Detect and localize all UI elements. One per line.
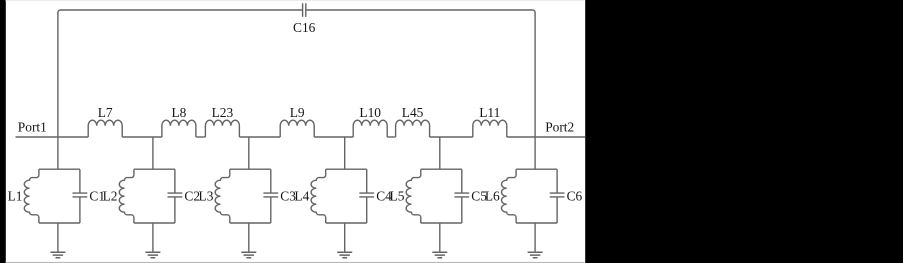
wire: tank 1 bottom rail — [39, 222, 80, 224]
wire: top loop left segment — [58, 10, 302, 13]
wire: tank 3 bottom rail — [230, 222, 271, 224]
capacitor C6 — [550, 169, 583, 223]
inductor L5 — [390, 169, 421, 223]
svg-text:L23: L23 — [212, 105, 234, 120]
ground — [432, 252, 447, 257]
capacitor C1 — [73, 169, 106, 223]
wire: tank 1 stub to ground — [57, 223, 59, 252]
wire: tank 2 stub to ground — [152, 223, 154, 252]
wire: tank 4 bottom rail — [326, 222, 367, 224]
svg-text:L7: L7 — [98, 105, 113, 120]
inductor L9 — [280, 105, 314, 137]
wire: node 4 stub down to tank — [344, 137, 346, 169]
wire: tank 1 top rail — [39, 168, 80, 170]
wire: node 5 stub down to tank — [439, 137, 441, 169]
capacitor C4 — [359, 169, 392, 223]
inductor L7 — [88, 105, 122, 137]
svg-text:L4: L4 — [294, 188, 309, 203]
wire: tank 5 top rail — [421, 168, 462, 170]
ground — [528, 252, 543, 257]
wire: tank 3 top rail — [230, 168, 271, 170]
capacitor C16 — [293, 3, 316, 35]
capacitor C5 — [454, 169, 487, 223]
wire: top loop right segment — [306, 10, 535, 13]
wire: main line L11 past node 6 to Port2 — [507, 136, 586, 138]
wire: left vertical of C16 loop, node 1 down to tank L1||C1 — [57, 13, 59, 170]
wire: main line L9 to node 4 / L10 — [314, 136, 353, 138]
wire: main line L45 to node 5 / L11 — [430, 136, 473, 138]
wire: node 2 stub down to tank — [152, 137, 154, 169]
inductor L1 — [8, 169, 39, 223]
wire: tank 6 bottom rail — [516, 222, 557, 224]
svg-text:C6: C6 — [567, 188, 583, 203]
svg-text:C16: C16 — [293, 20, 316, 35]
wire: tank 3 stub to ground — [248, 223, 250, 252]
svg-text:L3: L3 — [199, 188, 214, 203]
ground — [241, 252, 256, 257]
inductor L8 — [162, 105, 196, 137]
wire: tank 6 top rail — [516, 168, 557, 170]
inductor L11 — [473, 105, 507, 137]
wire: main line L7 to node 2 / L8 — [122, 136, 162, 138]
ground — [145, 252, 160, 257]
wire: main line L23 to node 3 / L9 — [239, 136, 280, 138]
svg-text:L6: L6 — [485, 188, 500, 203]
wire: tank 2 bottom rail — [134, 222, 175, 224]
svg-text:L2: L2 — [103, 188, 118, 203]
inductor L10 — [353, 105, 387, 137]
wire: tank 2 top rail — [134, 168, 175, 170]
wire: tank 4 top rail — [326, 168, 367, 170]
svg-text:Port2: Port2 — [545, 119, 574, 134]
wire: right vertical of C16 loop, node 6 down to tank L6||C6 — [534, 13, 536, 170]
inductor L6 — [485, 169, 516, 223]
wire: main line L8 to L23 — [196, 136, 206, 138]
inductor L2 — [103, 169, 134, 223]
wire: node 3 stub down to tank — [248, 137, 250, 169]
svg-text:L1: L1 — [8, 188, 23, 203]
wire: main line Port1 to node 1 / L7 — [16, 136, 89, 138]
inductor L23 — [205, 105, 239, 137]
svg-text:L45: L45 — [402, 105, 424, 120]
capacitor C2 — [168, 169, 201, 223]
svg-text:L11: L11 — [479, 105, 500, 120]
ground — [50, 252, 65, 257]
inductor L45 — [396, 105, 430, 137]
svg-text:L5: L5 — [390, 188, 405, 203]
svg-text:Port1: Port1 — [18, 119, 47, 134]
wire: tank 5 stub to ground — [439, 223, 441, 252]
wire: main line L10 to L45 — [387, 136, 395, 138]
wire: tank 4 stub to ground — [344, 223, 346, 252]
capacitor C3 — [263, 169, 296, 223]
svg-text:L8: L8 — [171, 105, 186, 120]
inductor L3 — [199, 169, 230, 223]
svg-text:L10: L10 — [359, 105, 381, 120]
inductor L4 — [294, 169, 325, 223]
ground — [337, 252, 352, 257]
svg-text:L9: L9 — [290, 105, 305, 120]
wire: tank 6 stub to ground — [534, 223, 536, 252]
wire: tank 5 bottom rail — [421, 222, 462, 224]
